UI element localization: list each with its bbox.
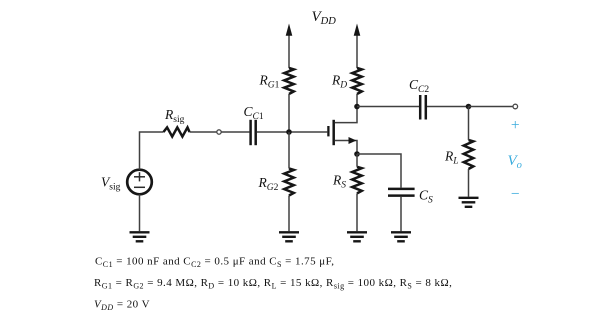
wire Vsig bottom to ground — [139, 194, 141, 231]
transistor Q1 source arrow — [349, 137, 357, 144]
wire RD bottom to drain node — [356, 94, 358, 107]
VDD supply arrow right — [354, 24, 361, 69]
ground under CS — [391, 232, 411, 241]
wire CC1 to gate junction and gate — [257, 131, 327, 133]
svg-text:RD: RD — [331, 73, 347, 91]
wire Vsig top to input wire corner — [140, 132, 164, 170]
node source junction — [354, 151, 360, 157]
resistor RG1 — [284, 68, 294, 94]
wire RS to ground — [356, 193, 358, 231]
ground under RL — [459, 198, 479, 207]
svg-text:RL: RL — [444, 149, 459, 167]
wire RL node to RL — [468, 107, 470, 141]
wire Rsig to input node circle — [190, 131, 217, 133]
svg-text:Rsig: Rsig — [164, 107, 185, 125]
resistor Rsig — [164, 127, 190, 136]
node gate junction — [286, 129, 292, 135]
svg-text:Vo: Vo — [508, 153, 522, 171]
wire source junction to RS — [356, 154, 358, 167]
capacitor CC1 — [251, 120, 256, 145]
wire drain junction to CC2 — [357, 106, 419, 108]
transistor Q1 source lead — [335, 141, 357, 155]
svg-text:CC1: CC1 — [244, 104, 264, 122]
output open terminal — [513, 104, 518, 109]
resistor RD — [352, 68, 362, 94]
svg-text:RG1​ = RG2​ = 9.4 MΩ, RD​ = 10: RG1​ = RG2​ = 9.4 MΩ, RD​ = 10 kΩ, RL​ =… — [94, 277, 452, 291]
resistor RL — [464, 140, 474, 169]
svg-text:RG1: RG1 — [259, 73, 280, 91]
wire CS to ground — [400, 197, 402, 231]
wire gate junction to RG2 — [288, 132, 290, 169]
wire RL to ground — [468, 169, 470, 197]
Vsig source circle — [127, 170, 152, 195]
svg-text:CS: CS — [419, 188, 433, 206]
svg-text:CC1​ = 100 nF and CC2​ = 0.5 μ: CC1​ = 100 nF and CC2​ = 0.5 μF and CS​ … — [95, 255, 335, 269]
svg-text:RS: RS — [332, 173, 346, 191]
resistor RS — [352, 167, 362, 194]
capacitor CS — [388, 189, 415, 196]
transistor Q1 channel bar — [332, 120, 335, 145]
svg-text:RG2: RG2 — [258, 175, 279, 193]
svg-text:−: − — [511, 186, 520, 203]
ground under RS — [347, 232, 367, 241]
wire RL node to output terminal — [469, 106, 513, 108]
node RL junction — [466, 104, 472, 110]
wire CC2 to RL node — [427, 106, 469, 108]
svg-text:VDD​ = 20 V: VDD​ = 20 V — [94, 298, 150, 312]
svg-text:Vsig: Vsig — [101, 175, 121, 193]
svg-text:+: + — [511, 117, 520, 134]
input open node — [217, 130, 221, 134]
ground under Vsig — [130, 232, 150, 241]
wire node to CC1 — [221, 131, 249, 133]
wire RG2 to ground — [288, 196, 290, 232]
svg-text:CC2: CC2 — [409, 77, 429, 95]
svg-text:VDD: VDD — [312, 9, 337, 27]
transistor Q1 drain lead — [335, 107, 357, 123]
capacitor CC2 — [420, 95, 426, 120]
ground under RG2 — [279, 232, 299, 241]
VDD supply arrow left — [286, 24, 293, 69]
wire RG1 bottom to gate node — [288, 94, 290, 132]
node drain junction — [354, 104, 360, 110]
resistor RG2 — [284, 169, 294, 196]
wire source junction to CS branch — [357, 154, 401, 188]
transistor Q1 gate bar — [327, 126, 329, 136]
